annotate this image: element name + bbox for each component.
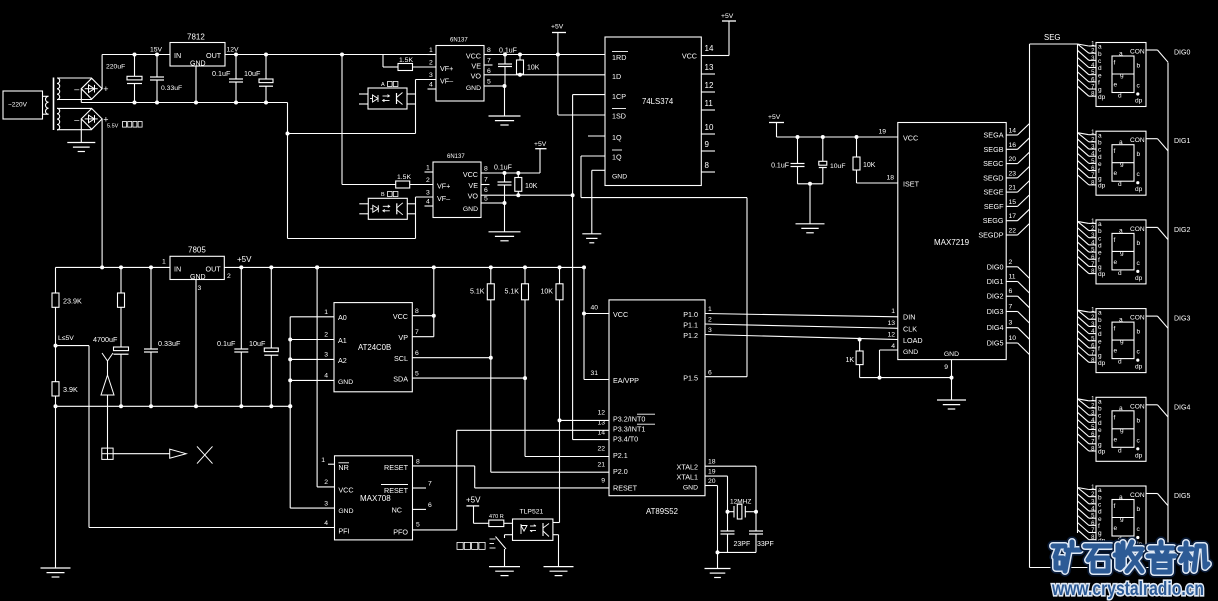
svg-text:SEGG: SEGG bbox=[983, 216, 1004, 225]
svg-text:f: f bbox=[1098, 79, 1100, 86]
svg-text:d: d bbox=[1098, 243, 1102, 250]
svg-text:dp: dp bbox=[1098, 360, 1106, 367]
svg-text:a: a bbox=[1098, 132, 1102, 139]
svg-text:P1.0: P1.0 bbox=[683, 310, 698, 319]
svg-text:21: 21 bbox=[1009, 185, 1017, 192]
svg-text:7: 7 bbox=[415, 329, 419, 336]
svg-text:XTAL1: XTAL1 bbox=[677, 473, 698, 482]
svg-text:e: e bbox=[1114, 259, 1118, 266]
svg-text:P1.2: P1.2 bbox=[683, 331, 698, 340]
svg-text:1.5K: 1.5K bbox=[399, 57, 413, 64]
svg-text:1: 1 bbox=[429, 47, 433, 54]
svg-text:a: a bbox=[1119, 405, 1123, 412]
svg-text:g: g bbox=[1120, 516, 1124, 523]
svg-text:1Q: 1Q bbox=[612, 153, 622, 162]
svg-text:9: 9 bbox=[944, 364, 948, 371]
svg-text:4: 4 bbox=[324, 373, 328, 380]
svg-text:a: a bbox=[1119, 228, 1123, 235]
svg-text:19: 19 bbox=[708, 469, 716, 476]
svg-text:1CP: 1CP bbox=[612, 92, 626, 101]
svg-text:220uF: 220uF bbox=[106, 64, 125, 71]
svg-text:DIG1: DIG1 bbox=[1174, 138, 1190, 145]
svg-text:P2.0: P2.0 bbox=[613, 467, 628, 476]
svg-text:GND: GND bbox=[338, 379, 353, 386]
svg-text:22: 22 bbox=[1009, 228, 1017, 235]
svg-text:4: 4 bbox=[429, 82, 433, 89]
svg-text:a: a bbox=[1098, 44, 1102, 51]
svg-text:d: d bbox=[1118, 181, 1122, 188]
svg-text:10uF: 10uF bbox=[830, 163, 846, 170]
svg-text:IN: IN bbox=[174, 51, 181, 60]
svg-text:1.5K: 1.5K bbox=[397, 174, 411, 181]
svg-text:4700uF: 4700uF bbox=[93, 335, 118, 344]
svg-text:DIG2: DIG2 bbox=[987, 292, 1004, 301]
svg-text:g: g bbox=[1098, 530, 1102, 537]
svg-text:DIG4: DIG4 bbox=[987, 323, 1004, 332]
svg-text:3: 3 bbox=[198, 285, 202, 292]
svg-text:a: a bbox=[1098, 221, 1102, 228]
svg-text:CON: CON bbox=[1130, 226, 1145, 233]
svg-text:g: g bbox=[1120, 338, 1124, 345]
svg-text:22: 22 bbox=[597, 446, 605, 453]
svg-text:SEGDP: SEGDP bbox=[978, 231, 1003, 240]
svg-text:L≤5V: L≤5V bbox=[58, 335, 74, 342]
svg-text:d: d bbox=[1118, 93, 1122, 100]
svg-text:IN: IN bbox=[174, 265, 181, 274]
svg-text:40: 40 bbox=[590, 305, 598, 312]
svg-text:www.crystalradio.cn: www.crystalradio.cn bbox=[1051, 579, 1204, 600]
svg-text:9: 9 bbox=[601, 478, 605, 485]
svg-text:GND: GND bbox=[944, 351, 959, 358]
svg-text:20: 20 bbox=[708, 478, 716, 485]
svg-text:15: 15 bbox=[1009, 199, 1017, 206]
svg-text:GND: GND bbox=[338, 508, 353, 515]
svg-text:d: d bbox=[1098, 509, 1102, 516]
svg-text:e: e bbox=[1114, 170, 1118, 177]
svg-text:SEGF: SEGF bbox=[984, 202, 1004, 211]
svg-text:OUT: OUT bbox=[206, 51, 222, 60]
svg-text:3.9K: 3.9K bbox=[63, 385, 78, 394]
svg-text:GND: GND bbox=[466, 85, 481, 92]
svg-text:A: A bbox=[381, 82, 385, 88]
svg-text:b: b bbox=[1098, 494, 1102, 501]
svg-text:dp: dp bbox=[1135, 364, 1143, 371]
svg-text:NC: NC bbox=[392, 506, 402, 515]
svg-text:b: b bbox=[1137, 151, 1141, 158]
svg-text:DIN: DIN bbox=[903, 313, 915, 322]
svg-text:g: g bbox=[1098, 441, 1102, 448]
svg-text:ISET: ISET bbox=[903, 180, 920, 189]
svg-text:7: 7 bbox=[487, 58, 491, 65]
svg-text:P1.5: P1.5 bbox=[683, 374, 698, 383]
svg-text:f: f bbox=[1114, 326, 1116, 333]
svg-text:b: b bbox=[1137, 329, 1141, 336]
svg-text:e: e bbox=[1098, 338, 1102, 345]
svg-text:CLK: CLK bbox=[903, 325, 917, 334]
svg-text:1: 1 bbox=[162, 259, 166, 266]
svg-text:e: e bbox=[1114, 436, 1118, 443]
svg-text:GND: GND bbox=[903, 349, 918, 356]
svg-text:9: 9 bbox=[705, 140, 710, 149]
svg-text:21: 21 bbox=[597, 462, 605, 469]
svg-text:DIG3: DIG3 bbox=[987, 307, 1004, 316]
svg-text:3: 3 bbox=[324, 352, 328, 359]
svg-text:PFO: PFO bbox=[393, 528, 408, 537]
svg-text:d: d bbox=[1098, 65, 1102, 72]
svg-text:0.33uF: 0.33uF bbox=[161, 85, 182, 92]
svg-text:CON: CON bbox=[1130, 492, 1145, 499]
svg-text:2: 2 bbox=[1009, 259, 1013, 266]
svg-text:13: 13 bbox=[887, 320, 895, 327]
svg-text:PFI: PFI bbox=[338, 527, 349, 536]
svg-text:12: 12 bbox=[705, 81, 714, 90]
svg-text:d: d bbox=[1098, 154, 1102, 161]
svg-text:dp: dp bbox=[1098, 271, 1106, 278]
svg-text:a: a bbox=[1098, 310, 1102, 317]
svg-text:5.5V: 5.5V bbox=[107, 124, 119, 130]
svg-text:P3.3/INT1: P3.3/INT1 bbox=[613, 424, 645, 433]
svg-text:SEGD: SEGD bbox=[983, 173, 1003, 182]
svg-text:10K: 10K bbox=[527, 65, 540, 72]
svg-text:d: d bbox=[1098, 420, 1102, 427]
svg-text:a: a bbox=[1098, 398, 1102, 405]
svg-text:3: 3 bbox=[426, 190, 430, 197]
svg-text:1RD: 1RD bbox=[612, 53, 626, 62]
svg-text:6: 6 bbox=[708, 370, 712, 377]
svg-text:b: b bbox=[1098, 228, 1102, 235]
svg-text:5: 5 bbox=[415, 371, 419, 378]
svg-text:VE: VE bbox=[471, 62, 481, 71]
svg-text:3: 3 bbox=[324, 501, 328, 508]
svg-text:SCL: SCL bbox=[394, 354, 408, 363]
svg-text:5.1K: 5.1K bbox=[470, 289, 485, 296]
svg-text:470 R: 470 R bbox=[489, 514, 504, 520]
svg-text:SEGA: SEGA bbox=[984, 131, 1004, 140]
svg-text:8: 8 bbox=[705, 161, 710, 170]
svg-text:10: 10 bbox=[705, 123, 714, 132]
svg-text:GND: GND bbox=[190, 60, 206, 67]
svg-text:+5V: +5V bbox=[466, 496, 481, 505]
svg-text:P3.2/INT0: P3.2/INT0 bbox=[613, 414, 645, 423]
svg-text:g: g bbox=[1120, 427, 1124, 434]
svg-text:0.33uF: 0.33uF bbox=[158, 339, 181, 348]
svg-text:a: a bbox=[1098, 487, 1102, 494]
svg-text:10: 10 bbox=[1009, 335, 1017, 342]
svg-text:e: e bbox=[1098, 72, 1102, 79]
svg-text:VF–: VF– bbox=[440, 77, 453, 86]
svg-text:CON: CON bbox=[1130, 315, 1145, 322]
svg-text:b: b bbox=[1137, 506, 1141, 513]
svg-text:74LS374: 74LS374 bbox=[642, 97, 674, 106]
svg-text:5: 5 bbox=[487, 79, 491, 86]
svg-text:RESET: RESET bbox=[613, 484, 638, 493]
svg-text:MAX7219: MAX7219 bbox=[934, 238, 970, 247]
svg-text:g: g bbox=[1098, 264, 1102, 271]
svg-text:+5V: +5V bbox=[237, 255, 252, 264]
svg-text:b: b bbox=[1098, 406, 1102, 413]
svg-text:a: a bbox=[1119, 494, 1123, 501]
svg-text:2: 2 bbox=[708, 317, 712, 324]
svg-text:2: 2 bbox=[324, 479, 328, 486]
svg-text:VF+: VF+ bbox=[437, 182, 450, 191]
svg-text:NR: NR bbox=[338, 463, 348, 472]
svg-text:b: b bbox=[1137, 63, 1141, 70]
svg-text:3: 3 bbox=[429, 72, 433, 79]
svg-text:6: 6 bbox=[487, 68, 491, 75]
svg-text:d: d bbox=[1098, 331, 1102, 338]
svg-text:1: 1 bbox=[321, 457, 325, 464]
svg-text:VF–: VF– bbox=[437, 194, 450, 203]
svg-text:e: e bbox=[1098, 516, 1102, 523]
svg-text:14: 14 bbox=[1009, 128, 1017, 135]
svg-text:DIG3: DIG3 bbox=[1174, 316, 1190, 323]
svg-text:P3.4/T0: P3.4/T0 bbox=[613, 434, 638, 443]
svg-text:19: 19 bbox=[878, 129, 886, 136]
svg-text:7805: 7805 bbox=[188, 246, 206, 255]
svg-text:f: f bbox=[1114, 503, 1116, 510]
svg-text:VCC: VCC bbox=[463, 170, 478, 179]
svg-text:e: e bbox=[1114, 348, 1118, 355]
svg-text:7: 7 bbox=[1009, 304, 1013, 311]
svg-text:d: d bbox=[1118, 359, 1122, 366]
svg-text:XTAL2: XTAL2 bbox=[677, 463, 698, 472]
svg-text:b: b bbox=[1098, 51, 1102, 58]
svg-text:23: 23 bbox=[1009, 170, 1017, 177]
svg-text:DIG1: DIG1 bbox=[987, 277, 1004, 286]
svg-text:0.1uF: 0.1uF bbox=[499, 48, 517, 55]
svg-text:1D: 1D bbox=[612, 72, 621, 81]
svg-text:4: 4 bbox=[891, 343, 895, 350]
svg-text:EA/VPP: EA/VPP bbox=[613, 376, 639, 385]
svg-text:–: – bbox=[74, 84, 79, 94]
svg-text:TLP521: TLP521 bbox=[520, 509, 544, 516]
svg-text:P2.1: P2.1 bbox=[613, 451, 628, 460]
svg-text:~220V: ~220V bbox=[8, 102, 28, 109]
svg-text:6: 6 bbox=[415, 350, 419, 357]
svg-text:SEGB: SEGB bbox=[984, 145, 1004, 154]
svg-text:dp: dp bbox=[1135, 186, 1143, 193]
svg-text:e: e bbox=[1098, 161, 1102, 168]
svg-text:VCC: VCC bbox=[682, 52, 697, 61]
svg-text:GND: GND bbox=[683, 485, 698, 492]
svg-text:12: 12 bbox=[597, 410, 605, 417]
svg-text:1: 1 bbox=[891, 308, 895, 315]
svg-text:f: f bbox=[1098, 168, 1100, 175]
svg-text:DIG2: DIG2 bbox=[1174, 227, 1190, 234]
svg-text:4: 4 bbox=[324, 520, 328, 527]
svg-text:5: 5 bbox=[416, 522, 420, 529]
svg-text:6: 6 bbox=[484, 187, 488, 194]
svg-text:VCC: VCC bbox=[466, 52, 481, 61]
svg-text:f: f bbox=[1114, 414, 1116, 421]
svg-text:a: a bbox=[1119, 316, 1123, 323]
svg-text:2: 2 bbox=[324, 332, 328, 339]
svg-text:23PF: 23PF bbox=[734, 541, 751, 548]
svg-text:g: g bbox=[1120, 72, 1124, 79]
svg-text:SEG: SEG bbox=[1044, 33, 1060, 42]
svg-text:2: 2 bbox=[429, 60, 433, 67]
svg-text:17: 17 bbox=[1009, 213, 1017, 220]
svg-text:f: f bbox=[1114, 148, 1116, 155]
svg-text:10uF: 10uF bbox=[244, 69, 261, 78]
svg-text:DIG0: DIG0 bbox=[1174, 50, 1190, 57]
svg-text:d: d bbox=[1118, 447, 1122, 454]
svg-text:0.1uF: 0.1uF bbox=[771, 163, 789, 170]
svg-text:18: 18 bbox=[886, 175, 894, 182]
svg-text:a: a bbox=[1119, 139, 1123, 146]
svg-text:f: f bbox=[1098, 523, 1100, 530]
svg-text:11: 11 bbox=[1009, 274, 1016, 281]
svg-text:GND: GND bbox=[463, 206, 478, 213]
svg-text:8: 8 bbox=[487, 47, 491, 54]
svg-text:1: 1 bbox=[708, 306, 712, 313]
svg-text:20: 20 bbox=[1009, 156, 1017, 163]
svg-text:B: B bbox=[381, 192, 385, 198]
svg-text:A1: A1 bbox=[338, 336, 347, 345]
svg-text:dp: dp bbox=[1098, 182, 1106, 189]
svg-text:2: 2 bbox=[426, 177, 430, 184]
svg-text:18: 18 bbox=[708, 459, 716, 466]
svg-text:b: b bbox=[1098, 139, 1102, 146]
svg-text:RESET: RESET bbox=[384, 486, 409, 495]
svg-text:e: e bbox=[1114, 525, 1118, 532]
svg-text:dp: dp bbox=[1135, 275, 1143, 282]
svg-text:SEGC: SEGC bbox=[983, 159, 1003, 168]
svg-text:11: 11 bbox=[705, 99, 714, 108]
svg-text:SEGE: SEGE bbox=[984, 188, 1004, 197]
svg-text:GND: GND bbox=[190, 274, 206, 281]
svg-text:OUT: OUT bbox=[206, 265, 222, 274]
svg-text:1: 1 bbox=[324, 309, 328, 316]
svg-text:8: 8 bbox=[415, 308, 419, 315]
svg-text:1SD: 1SD bbox=[612, 112, 626, 121]
svg-text:A2: A2 bbox=[338, 356, 347, 365]
svg-text:VCC: VCC bbox=[393, 312, 408, 321]
svg-text:+5V: +5V bbox=[551, 24, 564, 31]
svg-text:14: 14 bbox=[705, 44, 714, 53]
svg-text:dp: dp bbox=[1098, 449, 1106, 456]
svg-text:10K: 10K bbox=[541, 289, 554, 296]
svg-text:1K: 1K bbox=[845, 357, 854, 364]
svg-text:g: g bbox=[1098, 87, 1102, 94]
svg-text:6N137: 6N137 bbox=[447, 154, 465, 160]
svg-text:23.9K: 23.9K bbox=[63, 297, 82, 306]
svg-text:DIG0: DIG0 bbox=[987, 262, 1004, 271]
svg-text:g: g bbox=[1120, 161, 1124, 168]
svg-text:VCC: VCC bbox=[903, 134, 918, 143]
svg-text:P1.1: P1.1 bbox=[683, 321, 698, 330]
svg-text:VO: VO bbox=[468, 192, 479, 201]
svg-text:VCC: VCC bbox=[613, 310, 628, 319]
svg-text:f: f bbox=[1098, 434, 1100, 441]
svg-text:b: b bbox=[1137, 417, 1141, 424]
svg-text:LOAD: LOAD bbox=[903, 336, 923, 345]
svg-text:VCC: VCC bbox=[338, 486, 353, 495]
svg-text:a: a bbox=[1119, 50, 1123, 57]
svg-text:7812: 7812 bbox=[187, 33, 205, 42]
svg-text:d: d bbox=[1118, 270, 1122, 277]
svg-text:dp: dp bbox=[1135, 452, 1143, 459]
svg-text:+5V: +5V bbox=[768, 114, 781, 121]
svg-text:f: f bbox=[1114, 60, 1116, 67]
svg-text:3: 3 bbox=[708, 327, 712, 334]
svg-text:0.1uF: 0.1uF bbox=[217, 339, 236, 348]
svg-text:1Q: 1Q bbox=[612, 133, 622, 142]
svg-text:+5V: +5V bbox=[721, 13, 734, 20]
svg-text:–: – bbox=[74, 114, 79, 124]
svg-text:15V: 15V bbox=[150, 47, 163, 54]
svg-text:b: b bbox=[1098, 317, 1102, 324]
svg-text:3: 3 bbox=[1009, 320, 1013, 327]
svg-text:31: 31 bbox=[590, 370, 598, 377]
svg-text:12: 12 bbox=[887, 332, 895, 339]
svg-text:6: 6 bbox=[1009, 288, 1013, 295]
svg-text:0.1uF: 0.1uF bbox=[494, 165, 512, 172]
svg-text:10K: 10K bbox=[525, 183, 538, 190]
svg-text:12MHZ: 12MHZ bbox=[730, 499, 751, 506]
svg-text:g: g bbox=[1098, 353, 1102, 360]
svg-text:8: 8 bbox=[416, 459, 420, 466]
svg-text:SDA: SDA bbox=[393, 375, 408, 384]
svg-text:AT89S52: AT89S52 bbox=[646, 507, 678, 516]
svg-text:6: 6 bbox=[428, 502, 432, 509]
svg-text:VO: VO bbox=[471, 72, 482, 81]
svg-text:VP: VP bbox=[398, 333, 408, 342]
svg-text:GND: GND bbox=[612, 174, 627, 181]
svg-text:+: + bbox=[103, 84, 108, 94]
svg-text:10K: 10K bbox=[863, 162, 876, 169]
svg-text:dp: dp bbox=[1098, 94, 1106, 101]
svg-text:0.1uF: 0.1uF bbox=[212, 69, 231, 78]
svg-text:2: 2 bbox=[227, 273, 231, 280]
svg-text:8: 8 bbox=[484, 166, 488, 173]
svg-text:6N137: 6N137 bbox=[450, 38, 468, 44]
svg-text:5.1K: 5.1K bbox=[505, 289, 520, 296]
svg-text:g: g bbox=[1098, 175, 1102, 182]
svg-text:DIG4: DIG4 bbox=[1174, 404, 1190, 411]
svg-text:10uF: 10uF bbox=[249, 339, 266, 348]
svg-text:DIG5: DIG5 bbox=[987, 339, 1004, 348]
svg-text:b: b bbox=[1137, 240, 1141, 247]
svg-text:f: f bbox=[1098, 257, 1100, 264]
svg-text:MAX708: MAX708 bbox=[360, 494, 391, 503]
svg-text:1: 1 bbox=[426, 165, 430, 172]
svg-text:4: 4 bbox=[426, 199, 430, 206]
svg-text:AT24C0B: AT24C0B bbox=[358, 343, 391, 352]
svg-text:7: 7 bbox=[484, 177, 488, 184]
svg-text:e: e bbox=[1114, 82, 1118, 89]
svg-text:DIG5: DIG5 bbox=[1174, 493, 1190, 500]
svg-text:12V: 12V bbox=[227, 47, 240, 54]
svg-text:5: 5 bbox=[484, 196, 488, 203]
svg-text:CON: CON bbox=[1130, 137, 1145, 144]
svg-text:CON: CON bbox=[1130, 49, 1145, 56]
svg-text:g: g bbox=[1120, 249, 1124, 256]
svg-text:e: e bbox=[1098, 250, 1102, 257]
svg-text:f: f bbox=[1114, 237, 1116, 244]
svg-text:A0: A0 bbox=[338, 313, 347, 322]
svg-text:+5V: +5V bbox=[534, 141, 547, 148]
svg-text:f: f bbox=[1098, 346, 1100, 353]
svg-text:VF+: VF+ bbox=[440, 64, 453, 73]
svg-text:16: 16 bbox=[1009, 142, 1017, 149]
svg-text:33PF: 33PF bbox=[757, 541, 774, 548]
svg-text:dp: dp bbox=[1135, 98, 1143, 105]
svg-text:CON: CON bbox=[1130, 403, 1145, 410]
svg-text:e: e bbox=[1098, 427, 1102, 434]
svg-text:7: 7 bbox=[428, 481, 432, 488]
svg-text:RESET: RESET bbox=[384, 463, 409, 472]
